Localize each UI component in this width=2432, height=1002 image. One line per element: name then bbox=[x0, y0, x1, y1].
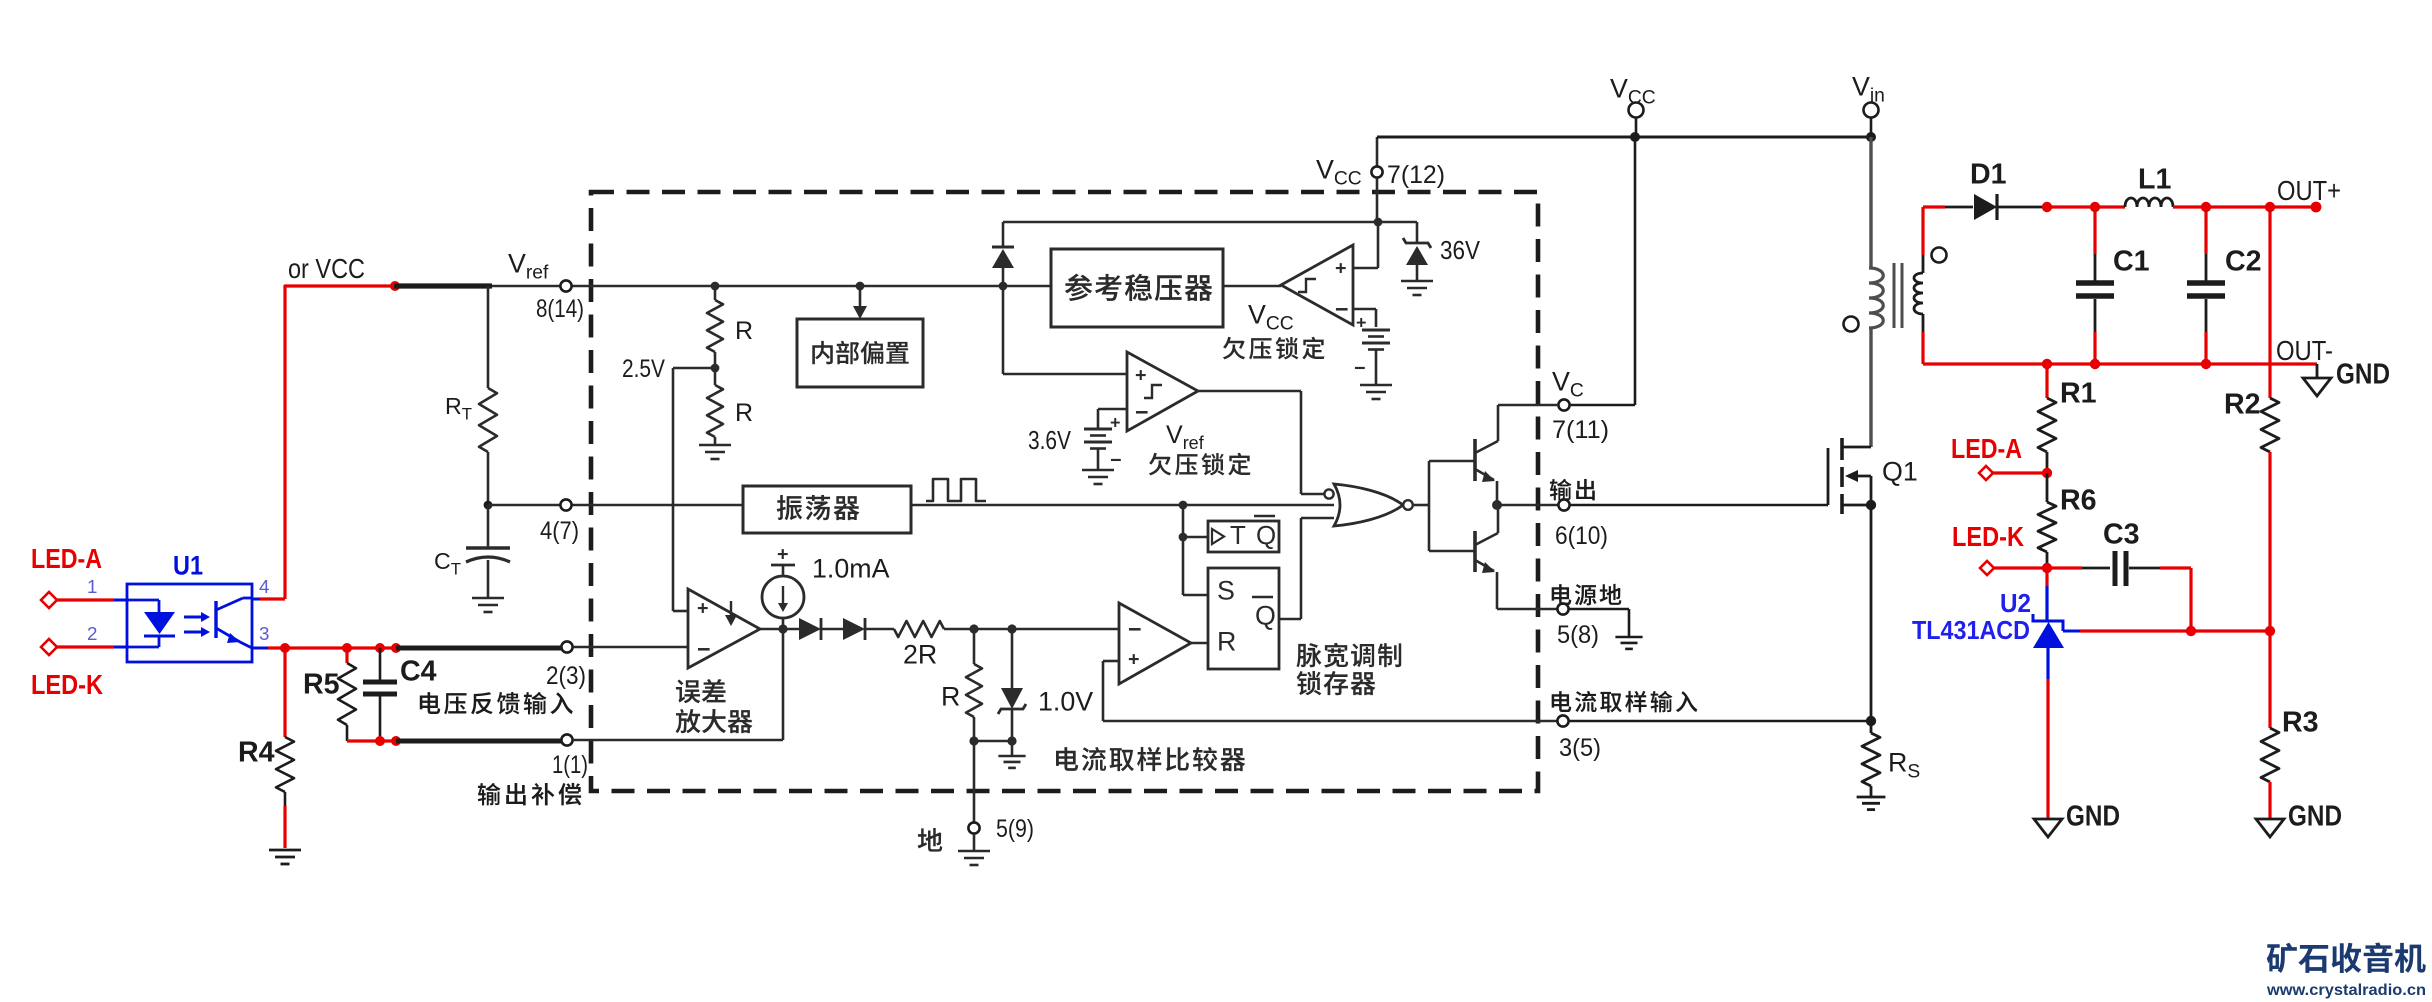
pin 1(1) bbox=[561, 734, 572, 745]
svg-text:TL431ACD: TL431ACD bbox=[1912, 617, 2030, 645]
pin output 6(10) bbox=[1558, 499, 1569, 510]
svg-text:GND: GND bbox=[2336, 359, 2390, 391]
diode Vref rail bbox=[999, 282, 1008, 291]
ground R3 bbox=[2256, 819, 2284, 837]
pin Vc 7(11) bbox=[1558, 399, 1569, 410]
wire power gnd pin bbox=[1497, 608, 1557, 611]
svg-text:−: − bbox=[1335, 296, 1349, 322]
svg-text:1.0V: 1.0V bbox=[1038, 687, 1093, 717]
wire to comparator minus bbox=[944, 628, 1127, 631]
wire Vref rail bbox=[591, 285, 1051, 288]
comparator current sense bbox=[1119, 603, 1191, 684]
wire U1 pin4 to VCC bbox=[252, 598, 260, 601]
wire drain bbox=[1869, 328, 1872, 447]
current source 1.0mA bbox=[762, 576, 804, 618]
svg-text:2(3): 2(3) bbox=[546, 662, 586, 690]
svg-text:C2: C2 bbox=[2225, 246, 2262, 278]
svg-text:or VCC: or VCC bbox=[288, 253, 365, 284]
battery 3.6V bbox=[1084, 428, 1112, 431]
svg-text:4(7): 4(7) bbox=[540, 517, 579, 545]
svg-text:OUT+: OUT+ bbox=[2277, 175, 2341, 206]
pin Vcc 7(12) bbox=[1376, 137, 1379, 166]
svg-text:S: S bbox=[1217, 576, 1235, 606]
wire pin 4(7) bbox=[488, 504, 743, 507]
svg-text:L1: L1 bbox=[2138, 164, 2171, 196]
internal bias box bbox=[797, 319, 923, 387]
wire error amp out bbox=[760, 628, 799, 631]
svg-text:C4: C4 bbox=[400, 656, 437, 688]
transformer T1 primary bbox=[1869, 268, 1883, 328]
svg-text:R3: R3 bbox=[2282, 707, 2319, 739]
wire UVLO + input bbox=[1377, 222, 1380, 268]
node 2.5V bbox=[711, 364, 720, 373]
junction osc to latch bbox=[1179, 501, 1188, 510]
label voltage feedback input bbox=[420, 692, 440, 714]
resistor RS bbox=[1870, 721, 1873, 733]
svg-text:+: + bbox=[1335, 258, 1347, 280]
pin current sense 3(5) bbox=[1557, 715, 1568, 726]
junction divider bbox=[711, 282, 720, 291]
svg-text:R: R bbox=[1217, 627, 1236, 657]
zener 1.0V bbox=[1011, 629, 1014, 688]
resistor R5 bbox=[345, 648, 348, 663]
svg-text:5(8): 5(8) bbox=[1557, 621, 1599, 649]
ground zener 36V bbox=[1401, 280, 1433, 283]
transistor totem lower bbox=[1473, 531, 1477, 572]
wire Qbar to NOR bbox=[1279, 618, 1301, 621]
watermark crystalradio bbox=[2267, 943, 2297, 973]
wire ref line bbox=[2063, 630, 2080, 633]
shunt regulator U2 TL431ACD bbox=[2045, 568, 2048, 586]
svg-text:Q: Q bbox=[1256, 522, 1276, 550]
capacitor C3 bbox=[2053, 566, 2082, 569]
wire red VCC feed bbox=[285, 286, 394, 599]
svg-text:36V: 36V bbox=[1440, 237, 1481, 265]
capacitor CT bbox=[487, 505, 490, 548]
svg-text:−: − bbox=[1110, 450, 1122, 472]
resistor R sense bbox=[973, 629, 976, 664]
ground divider bbox=[699, 444, 731, 447]
svg-text:+: + bbox=[777, 544, 789, 566]
resistor RT bbox=[487, 286, 490, 388]
svg-text:C1: C1 bbox=[2113, 246, 2150, 278]
svg-text:+: + bbox=[697, 598, 709, 620]
svg-text:R: R bbox=[941, 682, 960, 712]
svg-text:2: 2 bbox=[87, 623, 97, 644]
wire to pin 5(9) bbox=[973, 741, 976, 822]
SR latch box bbox=[1208, 568, 1279, 669]
wire comp plus input bbox=[1103, 660, 1119, 663]
svg-text:1.0mA: 1.0mA bbox=[812, 554, 890, 584]
svg-text:+: + bbox=[1128, 649, 1140, 671]
svg-text:3(5): 3(5) bbox=[1559, 734, 1601, 762]
label output compensation bbox=[478, 783, 501, 805]
diode pair bbox=[799, 618, 821, 640]
reference regulator box bbox=[1051, 249, 1223, 327]
junction Vref feed bbox=[390, 281, 400, 291]
pin 8(14) Vref bbox=[560, 280, 571, 291]
label current sense comparator bbox=[1056, 747, 1078, 771]
oscillator box bbox=[743, 486, 911, 533]
resistor R lower divider bbox=[707, 385, 723, 437]
transformer secondary bbox=[1921, 207, 1924, 255]
wire UVLO - input bbox=[1353, 308, 1376, 311]
wire NOR out bbox=[1413, 504, 1429, 507]
svg-text:GND: GND bbox=[2288, 801, 2342, 833]
wire osc output bbox=[911, 504, 1334, 507]
pin 2(3) bbox=[561, 641, 572, 652]
svg-text:8(14): 8(14) bbox=[536, 295, 584, 323]
wire Vc riser bbox=[1634, 137, 1637, 405]
IC U3842 internal block dashed border bbox=[591, 192, 1538, 791]
ground U2 bbox=[2046, 679, 2049, 819]
wire UVLO out to ref box bbox=[1223, 285, 1281, 288]
pin power gnd 5(8) bbox=[1557, 603, 1568, 614]
ground OUT- bbox=[2316, 364, 2319, 378]
U1 internal LED bbox=[127, 599, 159, 602]
svg-text:D1: D1 bbox=[1970, 159, 2007, 191]
zener 36V bbox=[1416, 222, 1419, 243]
svg-text:1(1): 1(1) bbox=[552, 751, 588, 779]
comparator VCC UVLO bbox=[1281, 245, 1353, 325]
svg-text:−: − bbox=[1128, 616, 1142, 642]
wire Vin to primary bbox=[1869, 137, 1872, 268]
wire OUT- rail bbox=[1923, 362, 2317, 365]
svg-text:GND: GND bbox=[2066, 801, 2120, 833]
svg-text:+: + bbox=[1356, 312, 1366, 332]
svg-text:7(11): 7(11) bbox=[1552, 416, 1609, 444]
wire U1 pin3 node bbox=[252, 647, 268, 650]
svg-text:1: 1 bbox=[87, 576, 97, 597]
node output totem bbox=[1492, 500, 1502, 510]
capacitor C4 bbox=[379, 648, 382, 680]
phase dot primary bbox=[1844, 317, 1859, 332]
inductor L1 bbox=[2125, 198, 2173, 207]
junction sense gnd bbox=[969, 736, 978, 745]
svg-text:U1: U1 bbox=[173, 551, 203, 581]
battery VCC UVLO bbox=[1362, 329, 1390, 332]
svg-text:7(12): 7(12) bbox=[1387, 161, 1445, 189]
arrow bias feed bbox=[856, 282, 865, 291]
svg-text:+: + bbox=[1110, 412, 1120, 432]
wire Vref UVLO + input bbox=[1002, 286, 1005, 374]
capacitor C1 bbox=[2093, 207, 2096, 254]
terminal Vin bbox=[1866, 132, 1876, 142]
svg-text:4: 4 bbox=[259, 576, 269, 597]
svg-text:−: − bbox=[1135, 399, 1149, 425]
ground R4 bbox=[269, 849, 301, 852]
svg-text:2R: 2R bbox=[903, 640, 937, 670]
resistor R6 bbox=[2046, 473, 2049, 502]
svg-text:R: R bbox=[735, 399, 753, 427]
svg-text:LED-K: LED-K bbox=[31, 669, 103, 700]
wire comp out to R bbox=[1191, 642, 1208, 645]
svg-text:C3: C3 bbox=[2103, 519, 2140, 551]
diode D1 bbox=[1974, 194, 1997, 220]
wire pin 2(3) thick bbox=[396, 646, 561, 651]
resistor 2R bbox=[894, 621, 944, 637]
svg-text:LED-A: LED-A bbox=[1951, 433, 2022, 464]
transformer core bbox=[1893, 263, 1896, 328]
T flipflop box bbox=[1208, 521, 1279, 552]
wire top rail bbox=[1003, 221, 1417, 224]
svg-text:5(9): 5(9) bbox=[996, 815, 1034, 843]
transistor totem upper bbox=[1473, 439, 1477, 481]
op-amp error amplifier bbox=[688, 589, 760, 668]
pin 4(7) bbox=[560, 499, 571, 510]
wire Vref UVLO - input bbox=[1098, 408, 1127, 411]
svg-text:−: − bbox=[697, 636, 711, 662]
comparator Vref UVLO bbox=[1127, 352, 1198, 431]
svg-text:R1: R1 bbox=[2060, 378, 2097, 410]
wire VCC rail top bbox=[1377, 136, 1869, 139]
ground CT bbox=[472, 597, 504, 600]
svg-text:+: + bbox=[1135, 365, 1147, 387]
svg-text:LED-A: LED-A bbox=[31, 543, 102, 574]
svg-text:Q1: Q1 bbox=[1882, 456, 1918, 486]
node source bbox=[1866, 500, 1876, 510]
ground battery VCC UVLO bbox=[1360, 384, 1392, 387]
capacitor C2 bbox=[2204, 207, 2207, 254]
svg-text:OUT-: OUT- bbox=[2276, 335, 2333, 366]
svg-text:R4: R4 bbox=[238, 737, 275, 769]
svg-text:2.5V: 2.5V bbox=[622, 355, 665, 383]
clock waveform symbol bbox=[926, 479, 986, 501]
svg-text:6(10): 6(10) bbox=[1555, 522, 1608, 550]
resistor R2 bbox=[2268, 207, 2271, 398]
svg-text:R2: R2 bbox=[2224, 389, 2261, 421]
svg-text:www.crystalradio.cn: www.crystalradio.cn bbox=[2266, 981, 2426, 999]
wire T input bbox=[1183, 536, 1208, 539]
wire S input bbox=[1183, 594, 1208, 597]
svg-text:3.6V: 3.6V bbox=[1028, 427, 1072, 455]
optocoupler U1 box bbox=[127, 584, 252, 662]
svg-text:R: R bbox=[735, 317, 753, 345]
svg-text:R5: R5 bbox=[303, 669, 340, 701]
resistor R4 bbox=[283, 648, 286, 737]
wire pin 1(1) node bbox=[347, 739, 398, 742]
U1 phototransistor bbox=[214, 601, 217, 638]
NOR gate bbox=[1334, 484, 1403, 526]
pin 5(9) ground bbox=[968, 822, 979, 833]
svg-text:3: 3 bbox=[259, 623, 269, 644]
ground battery 3.6V bbox=[1082, 469, 1114, 472]
ground RS bbox=[1857, 796, 1886, 799]
transistor Q1 MOSFET bbox=[1827, 448, 1830, 505]
wire Vref UVLO out to NOR bbox=[1198, 390, 1301, 393]
svg-text:U2: U2 bbox=[2000, 590, 2031, 618]
wire secondary top bbox=[1923, 205, 1945, 208]
ground 1.0V zener bbox=[1011, 741, 1014, 756]
phase dot secondary bbox=[1932, 248, 1947, 263]
terminal VCC bbox=[1630, 132, 1640, 142]
svg-text:R6: R6 bbox=[2060, 485, 2097, 517]
node current sense bbox=[1866, 716, 1876, 726]
resistor R1 bbox=[2045, 364, 2048, 398]
svg-text:T: T bbox=[1230, 522, 1246, 550]
svg-text:−: − bbox=[1354, 358, 1366, 380]
svg-text:Q: Q bbox=[1255, 601, 1276, 631]
label PWM latch bbox=[1297, 643, 1322, 667]
wire Vref thick bbox=[394, 283, 492, 288]
resistor R3 bbox=[2268, 631, 2271, 728]
svg-text:LED-K: LED-K bbox=[1952, 521, 2024, 552]
junction RT CT bbox=[484, 501, 493, 510]
wire OUT+ rail bbox=[2042, 202, 2052, 212]
resistor R upper divider bbox=[707, 300, 723, 352]
U1 light arrows bbox=[184, 616, 201, 619]
